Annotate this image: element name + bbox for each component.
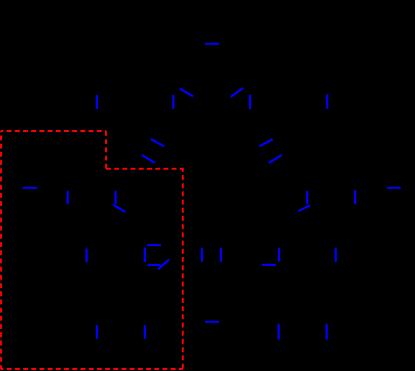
bond N vertical mid-left chain [114,191,116,204]
bond C=N upper-left slant of top ring [180,89,193,97]
unit-cell box left edge [0,131,2,369]
bond N vertical center pair left [201,248,203,262]
bond N vertical left-unit outer [85,249,87,263]
bond N-H bridge slant left-unit [158,260,169,270]
bond N vertical inner-left of top ring [172,95,174,109]
bond N vertical mid-right chain [306,191,308,204]
bond N vertical center pair right [220,248,222,262]
unit-cell box step vertical edge [105,131,107,169]
bond N horizontal right-unit bottom [262,264,276,266]
bond C-N slant lower bridge left [142,155,155,163]
bond N vertical right-unit inner [278,248,280,262]
bond N-H bottom center (NH2) [205,321,219,323]
bond N vertical left chain [67,191,69,205]
bond N-H top (NH2 of top heptazine) [205,43,219,45]
bond N vertical bottom-left outer [96,325,98,339]
bond C-N slant lower bridge right [269,155,282,163]
unit-cell box step horizontal edge [106,168,183,170]
bond N horizontal left-unit top [147,244,161,246]
bond N-H far right [387,187,401,189]
bond N vertical bottom-right inner [278,324,280,340]
bond N vertical left of top ring [96,95,98,109]
bond N vertical left-unit inner [144,248,146,263]
bond C-N slant upper bridge left [151,139,164,146]
unit-cell box bottom edge [1,368,183,370]
bond N slant below mid-left [113,205,125,212]
bond N vertical right-unit outer [335,248,337,262]
bond N slant below mid-right [298,205,310,211]
bond N-H far left [23,187,38,189]
bond C-N slant upper bridge right [259,139,272,146]
unit-cell box right edge [182,168,184,369]
bond N vertical bottom-left inner [144,325,146,339]
unit-cell box top edge [1,130,106,132]
bond C=N upper-right slant of top ring [231,88,243,97]
bond N vertical right of top ring [326,94,328,109]
bond N vertical inner-right of top ring [249,95,251,109]
bond N horizontal left-unit bottom [148,264,161,266]
bond N vertical bottom-right outer [326,324,328,340]
bond N vertical right chain [354,190,356,204]
